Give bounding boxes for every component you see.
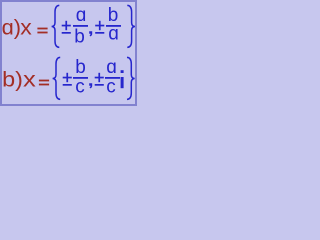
- svg-text:b): b): [2, 69, 23, 92]
- left brace: [52, 5, 60, 47]
- plus-minus 2: [95, 73, 104, 86]
- right brace: [127, 5, 135, 47]
- = sign: [37, 28, 47, 30]
- svg-text:x: x: [20, 17, 32, 40]
- svg-text:ɑ: ɑ: [106, 57, 117, 78]
- background: [0, 0, 137, 106]
- comma: [89, 83, 92, 88]
- svg-text:ɑ): ɑ): [2, 17, 21, 40]
- svg-text:b: b: [75, 57, 86, 78]
- svg-text:x: x: [23, 69, 36, 92]
- svg-text:ɑ: ɑ: [76, 5, 87, 26]
- right brace: [127, 57, 135, 99]
- border frame: [1, 1, 136, 105]
- comma: [89, 31, 92, 36]
- = sign: [39, 80, 49, 82]
- plus-minus 1: [62, 21, 71, 34]
- svg-text:ɑ: ɑ: [108, 23, 119, 44]
- svg-text:c: c: [75, 77, 85, 98]
- svg-text:b: b: [74, 27, 85, 48]
- left brace: [53, 57, 61, 99]
- plus-minus 2: [95, 21, 104, 34]
- plus-minus 1: [63, 73, 72, 86]
- letter i: [121, 70, 124, 88]
- svg-text:c: c: [106, 77, 116, 98]
